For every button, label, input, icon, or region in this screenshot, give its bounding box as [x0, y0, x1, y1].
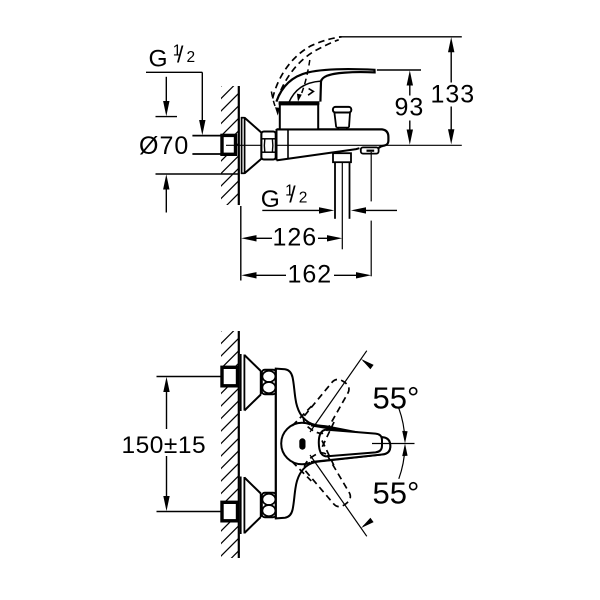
svg-text:133: 133 [431, 81, 476, 109]
faucet body (side view) [277, 129, 389, 148]
cartridge housing [280, 104, 318, 129]
lever handle (solid, lowered) [276, 69, 374, 102]
126 dimension [241, 235, 256, 241]
upper escutcheon flange [240, 354, 242, 411]
lever (plan, solid) [305, 425, 390, 462]
upper union block [222, 367, 238, 386]
dia70 top tick [156, 116, 178, 118]
wall line (bottom drawing) [238, 331, 240, 558]
upper union nut [262, 370, 276, 394]
spout centerline [370, 152, 372, 201]
svg-text:/: / [289, 182, 296, 208]
svg-text:Ø70: Ø70 [139, 132, 189, 160]
body outline (plan view) [276, 369, 391, 519]
shower pipe centerline [341, 162, 343, 249]
svg-text:55°: 55° [373, 381, 420, 416]
svg-text:2: 2 [299, 189, 308, 206]
svg-text:/: / [177, 41, 184, 67]
G1/2 leader right with arrow [366, 209, 398, 211]
svg-text:93: 93 [395, 94, 425, 122]
svg-text:G: G [261, 186, 280, 213]
55deg arc lower [399, 447, 405, 479]
motion arc middle with arrow [301, 60, 310, 96]
shower outlet pipe [334, 162, 336, 219]
dia70 bottom extension line [156, 173, 240, 175]
lower escutcheon flange [240, 477, 242, 535]
union nut [261, 132, 275, 160]
lower union nut [262, 493, 276, 517]
radial line +55 up [310, 351, 367, 432]
escutcheon cone [245, 118, 262, 174]
lever inner edge [289, 81, 321, 103]
upper escutcheon cone [244, 355, 260, 411]
dashed lever rotated up 55deg [292, 372, 360, 447]
55deg arc upper [399, 408, 405, 440]
body left edge (plan) [275, 368, 277, 519]
union block in wall [222, 135, 236, 154]
wall hatching (bottom drawing) [203, 301, 251, 587]
svg-text:2: 2 [187, 49, 196, 66]
motion arc left with arrow [271, 92, 276, 110]
dome center pill [299, 438, 305, 449]
supply pipe stub behind wall [192, 135, 222, 137]
cartridge dome circle [281, 423, 323, 465]
lower escutcheon cone [244, 478, 260, 534]
G 1/2 label (shower outlet) [261, 182, 308, 213]
dia70 lower outside arrow [165, 189, 167, 213]
center axis line [226, 144, 462, 146]
93 dimension [377, 69, 421, 71]
wall extension line below [240, 206, 242, 281]
escutcheon flange [241, 117, 243, 174]
lower union block [222, 502, 238, 521]
162 dimension [241, 272, 256, 278]
G 1/2 label top-left [149, 41, 196, 72]
svg-text:162: 162 [288, 261, 333, 289]
svg-text:150±15: 150±15 [122, 432, 207, 459]
G1/2 leader left with arrow [262, 209, 319, 211]
cartridge cap thick bar [279, 101, 320, 104]
150+-15 dimension [157, 376, 223, 378]
G1/2 label bracket [146, 71, 202, 73]
spout outlet [361, 147, 379, 153]
centerline right (plan) [372, 443, 415, 445]
dashed lever rotated down 55deg [292, 440, 360, 515]
diverter knob [333, 107, 351, 113]
body inlet section [276, 129, 278, 160]
G1/2 arrow to thread [201, 72, 203, 120]
svg-text:126: 126 [273, 224, 318, 252]
shower outlet collar [333, 153, 351, 162]
dia70 upper outside arrow [165, 77, 167, 102]
body underside slope [277, 148, 360, 160]
133 dimension [339, 36, 462, 38]
dashed lever (raised position) inner [277, 40, 339, 100]
radial line -55 down [310, 455, 367, 536]
svg-text:G: G [149, 46, 168, 73]
wall hatching (top drawing) [203, 56, 251, 254]
svg-text:55°: 55° [373, 476, 420, 511]
dashed lever (raised position) outer [273, 37, 342, 99]
wall line (top drawing) [238, 86, 240, 205]
